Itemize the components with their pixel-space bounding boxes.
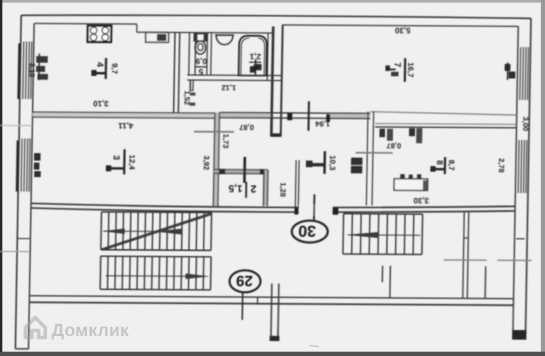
svg-text:7: 7	[393, 62, 403, 67]
svg-text:6: 6	[252, 62, 257, 72]
svg-text:3,10: 3,10	[27, 63, 36, 78]
svg-text:9,7: 9,7	[110, 63, 119, 74]
svg-text:2: 2	[250, 182, 256, 194]
svg-text:1,73: 1,73	[221, 134, 230, 149]
svg-text:4,11: 4,11	[118, 121, 134, 130]
svg-text:3,92: 3,92	[202, 156, 211, 171]
svg-text:1,12: 1,12	[221, 83, 236, 92]
svg-text:1,52: 1,52	[182, 90, 191, 105]
svg-text:2,1: 2,1	[249, 52, 261, 61]
svg-text:12,4: 12,4	[127, 155, 136, 171]
svg-text:0,87: 0,87	[239, 123, 254, 132]
svg-text:4: 4	[95, 62, 105, 67]
svg-text:2,78: 2,78	[497, 158, 506, 173]
svg-text:3,00: 3,00	[521, 117, 530, 132]
svg-text:16,7: 16,7	[406, 62, 415, 77]
svg-text:1,94: 1,94	[314, 119, 330, 128]
svg-text:1,28: 1,28	[278, 182, 287, 197]
svg-text:8: 8	[435, 160, 445, 165]
svg-text:3: 3	[112, 155, 122, 160]
svg-text:1,5: 1,5	[228, 182, 243, 193]
svg-text:0,9: 0,9	[195, 56, 207, 65]
svg-text:3,30: 3,30	[413, 196, 429, 205]
svg-text:5,30: 5,30	[394, 26, 410, 35]
svg-text:3,10: 3,10	[93, 99, 109, 108]
svg-text:8,7: 8,7	[447, 160, 456, 171]
svg-text:30: 30	[298, 222, 316, 239]
svg-text:0,87: 0,87	[386, 141, 401, 150]
svg-text:Домклик: Домклик	[52, 320, 130, 340]
svg-text:10,3: 10,3	[328, 155, 337, 171]
svg-text:29: 29	[236, 272, 253, 289]
